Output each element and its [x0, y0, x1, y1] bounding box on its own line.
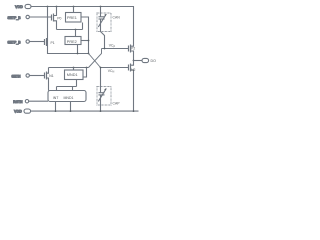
node PRE2bot-tap: [77, 53, 79, 55]
capacitor CAP (varactor in dashed box): [97, 68, 120, 112]
transistor N1: [45, 68, 54, 91]
wire P0 drain bus: [57, 29, 83, 31]
wire bridge drop left: [56, 87, 58, 91]
wire MND1 bottom lead: [76, 80, 78, 87]
wire VDD rail: [31, 7, 134, 46]
power pin VDD: [15, 4, 31, 8]
box INT MND1: [48, 91, 86, 102]
svg-text:N2: N2: [131, 68, 135, 72]
wire box to rail right: [70, 102, 72, 112]
node rail-int2: [70, 110, 72, 112]
svg-text:VDD: VDD: [14, 110, 22, 114]
svg-text:PRE1: PRE1: [67, 16, 77, 20]
svg-text:MND1: MND1: [67, 73, 78, 77]
transistor N2 (output NMOS): [129, 61, 136, 112]
wire MND1 right lead: [83, 68, 87, 78]
wire SETP_B to P1 gate: [30, 41, 45, 43]
wire ladder bridge: [57, 86, 77, 88]
node rail-CAP: [100, 110, 102, 112]
svg-text:N1: N1: [49, 74, 53, 78]
power pin VDD bottom: [14, 109, 31, 114]
input pin SETP_B row3: [7, 40, 29, 45]
svg-text:SETN: SETN: [11, 74, 21, 78]
svg-text:VCP: VCP: [109, 44, 116, 49]
wire output to DO: [134, 60, 143, 62]
wire VCN: [101, 67, 129, 69]
node rail-int1: [55, 110, 57, 112]
svg-text:VDD: VDD: [15, 5, 23, 9]
input pin SETN: [11, 74, 29, 79]
node preout-join: [88, 40, 90, 42]
svg-text:PRE2: PRE2: [67, 40, 77, 44]
node rail-N2: [133, 110, 135, 112]
node rail-Pdrop: [47, 6, 49, 8]
box PRE1: [66, 13, 82, 23]
node MND1-right-tap: [86, 67, 88, 69]
wire bus to PRE2 top: [75, 30, 77, 38]
transistor P2 (output PMOS): [129, 45, 136, 61]
svg-text:P1: P1: [51, 41, 55, 45]
node rail-P0src: [56, 6, 58, 8]
wire RSTN to box: [29, 100, 48, 102]
wire SETP_B to P0 gate: [30, 16, 52, 18]
svg-text:SETP_B: SETP_B: [7, 40, 21, 44]
capacitor CAN (varactor in dashed box): [97, 7, 120, 49]
input pin RSTN: [13, 100, 28, 105]
wire crossover diagonal A: [89, 54, 101, 68]
svg-text:SETP_B: SETP_B: [7, 16, 21, 20]
wire PRE2 bottom lead: [77, 45, 79, 54]
node VCN-CAP: [100, 67, 102, 69]
box MND1: [65, 70, 84, 80]
wire VCP: [102, 48, 129, 50]
output pin DO: [142, 58, 156, 63]
box PRE2: [65, 37, 81, 45]
wire PRE2 output: [81, 40, 89, 42]
wire bottom rail: [31, 110, 139, 112]
svg-text:P2: P2: [131, 46, 135, 50]
svg-text:INT: INT: [53, 96, 60, 100]
wire VDD drop to crossover: [48, 7, 89, 54]
svg-text:DO: DO: [151, 59, 157, 63]
wire SETN to N1 gate: [30, 75, 45, 77]
svg-text:CAN: CAN: [113, 16, 121, 20]
wire PRE1 supply: [73, 7, 75, 13]
node rail-PRE1: [73, 6, 75, 8]
node bus-PRE2top: [75, 29, 77, 31]
node output: [133, 60, 135, 62]
transistor P1: [45, 38, 55, 46]
input pin SETP_B: [7, 15, 29, 19]
node crossover-left: [88, 53, 90, 55]
transistor P0: [52, 7, 62, 30]
node MND1-top-tap: [73, 67, 75, 69]
wire box to rail left: [55, 102, 57, 112]
svg-text:CAP: CAP: [113, 102, 121, 106]
svg-text:RSTN: RSTN: [13, 100, 23, 104]
node VCP-CAN: [104, 48, 106, 50]
wire PRE1 output: [81, 17, 89, 54]
wire PRE1 bottom lead: [82, 23, 84, 30]
wire bridge drop right: [72, 87, 74, 91]
svg-text:P0: P0: [57, 17, 61, 21]
svg-text:VCN: VCN: [108, 69, 115, 74]
svg-text:MND1: MND1: [64, 96, 74, 100]
node rail-CAN: [100, 6, 102, 8]
wire MND1 top lead: [73, 68, 75, 71]
wire crossover diagonal B: [89, 49, 102, 68]
wire VCN left segment: [49, 67, 89, 69]
